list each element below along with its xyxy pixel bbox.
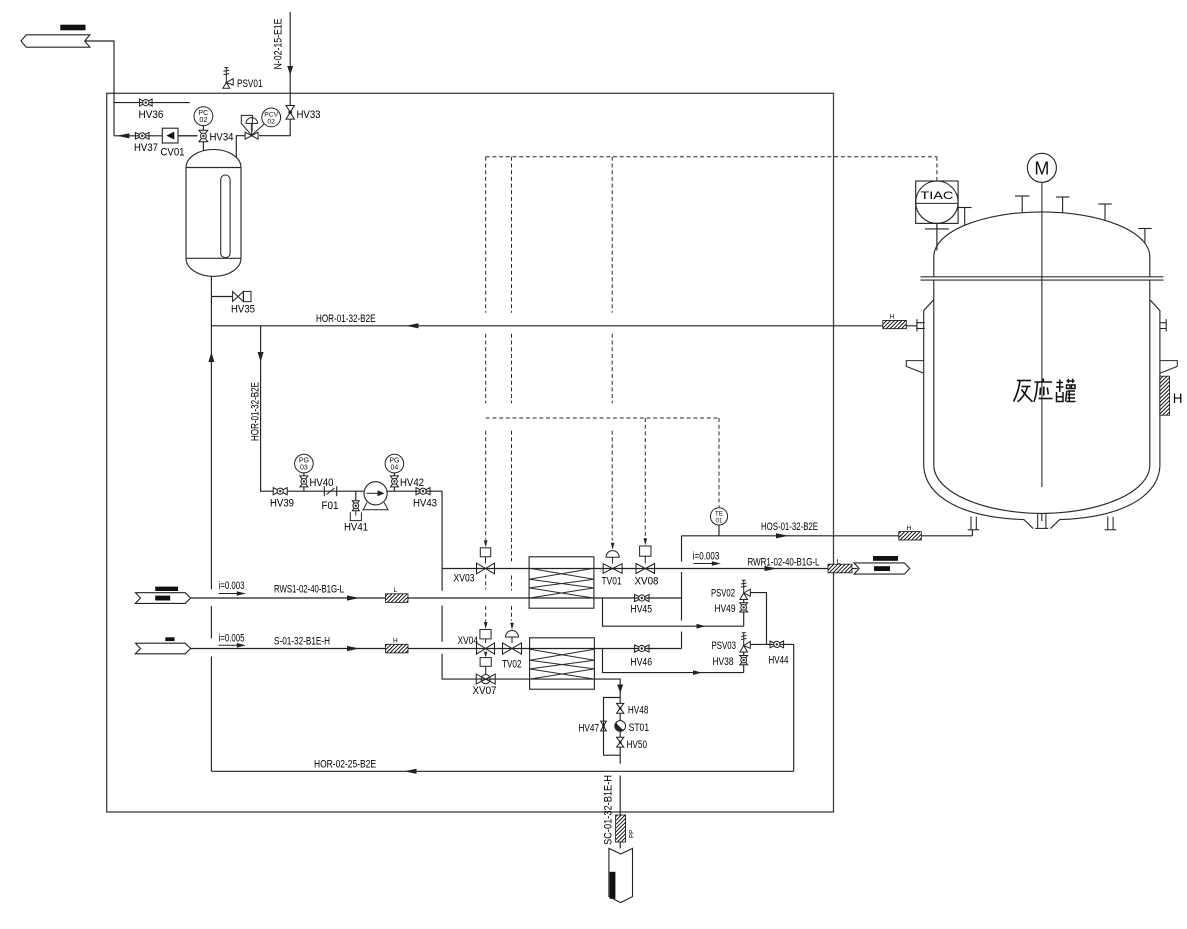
pipe HOR-02-25-B2E <box>211 770 793 772</box>
pipe XV03 oil line through E01 to RWR1 <box>442 568 828 570</box>
svg-text:PG: PG <box>389 458 399 465</box>
label XV03 <box>454 573 475 585</box>
label H on HOR-01 hatch <box>890 313 895 320</box>
svg-text:PCV: PCV <box>264 111 278 118</box>
svg-text:PSV02: PSV02 <box>711 588 735 600</box>
label HV40 <box>310 477 334 489</box>
valve TV02 <box>503 643 522 654</box>
wire vessel drop lower-2 <box>210 657 212 772</box>
label HV42 <box>400 477 424 489</box>
svg-text:HV43: HV43 <box>413 498 437 510</box>
label RWS1-02-40-B1G-L <box>274 584 344 596</box>
svg-text:HV38: HV38 <box>713 656 734 668</box>
signal riser XV03 upper <box>485 157 487 313</box>
label reactor name 1st char <box>1014 381 1033 402</box>
signal riser XV03 lower <box>485 431 487 540</box>
actuator PCV02 pennant <box>241 115 252 135</box>
svg-text:HOR-02-25-B2E: HOR-02-25-B2E <box>314 759 376 771</box>
instrument bubble PCV-02 <box>262 108 281 127</box>
wire HV36 branch <box>114 102 190 104</box>
heat exchanger E01 coil zigzag <box>529 568 594 598</box>
signal riser TV02 c <box>511 431 513 562</box>
control valve PCV02 body <box>245 132 258 139</box>
pipe RWS1-02-40-B1G-L <box>191 597 682 599</box>
label TV01 <box>602 576 622 588</box>
wire vessel bottom drop <box>210 276 212 589</box>
valve HV44 <box>770 641 784 648</box>
wire discharge drop low + bypass corner <box>442 654 476 679</box>
svg-text:HV45: HV45 <box>631 604 653 616</box>
valve TV01 <box>603 564 622 574</box>
arrow flow right into HV38 riser <box>693 670 702 675</box>
svg-text:M: M <box>1034 158 1049 178</box>
wire HV42 stem <box>393 487 395 491</box>
signal riser TV01 a <box>611 157 613 313</box>
svg-text:HV44: HV44 <box>769 655 789 667</box>
svg-text:H: H <box>907 525 912 532</box>
valve HV36 <box>140 99 153 106</box>
signal riser TV01 b <box>611 334 613 404</box>
reactor flange <box>921 277 1164 280</box>
svg-text:TIAC: TIAC <box>920 190 953 202</box>
arrow condensate flow down <box>617 685 623 694</box>
strainer F01 <box>324 486 336 496</box>
svg-text:02: 02 <box>199 115 207 124</box>
instrument bubble TE-01 <box>710 508 727 525</box>
wire E02 drain tee drop <box>603 649 744 673</box>
arrow pump suction flow down <box>258 352 264 362</box>
label H on HOS hatch <box>907 525 912 532</box>
wire HV44 drop to HOR-02 <box>793 644 795 771</box>
valve HV48 <box>617 703 624 713</box>
vessel V01 buffer tank shell <box>186 149 241 276</box>
arrow HOS flow right <box>776 533 789 538</box>
svg-text:HV46: HV46 <box>631 657 653 669</box>
hatch spec-break HOR-01 <box>883 320 907 328</box>
wire HOS collector lower <box>681 632 683 649</box>
check valve CV01 <box>162 128 178 143</box>
label S-01-32-B1E-H <box>274 636 330 648</box>
svg-text:HV40: HV40 <box>310 477 334 489</box>
signal riser XV03 mid <box>485 334 487 404</box>
battery-limit frame box <box>107 93 834 812</box>
svg-text:XV07: XV07 <box>473 685 497 697</box>
label RWR1-02-40-B1G-L <box>748 557 820 569</box>
arrow RWR flow right <box>765 566 778 571</box>
label H on S hatch <box>393 638 398 645</box>
valve HV34 <box>199 130 208 141</box>
jacket right wall <box>1150 300 1160 467</box>
svg-text:HV34: HV34 <box>210 132 234 144</box>
label HV44 <box>769 655 789 667</box>
svg-text:PP: PP <box>629 830 636 838</box>
wire HV42 to PG04 <box>393 473 395 476</box>
actuator TV01 diaphragm <box>606 551 619 564</box>
wire HV38 to PSV03 <box>743 652 745 656</box>
svg-text:HV48: HV48 <box>628 705 649 717</box>
reactor nozzle flange HOR-01 <box>917 319 925 331</box>
valve HV50 <box>617 737 624 747</box>
valve HV43 <box>416 488 430 495</box>
wire pump train <box>287 490 442 492</box>
actuator XV03 <box>480 548 490 564</box>
svg-text:H: H <box>393 638 398 645</box>
actuator XV04 <box>480 630 491 644</box>
signal riser TV02 d <box>511 576 513 591</box>
pipe SC-01-32-B1E-H drop <box>619 776 621 849</box>
signal arrow XV04 <box>484 622 488 629</box>
svg-text:RWS1-02-40-B1G-L: RWS1-02-40-B1G-L <box>274 584 344 596</box>
svg-text:F01: F01 <box>322 500 339 512</box>
label HV33 <box>297 109 321 121</box>
svg-text:i=0.003: i=0.003 <box>219 580 245 592</box>
svg-text:HV36: HV36 <box>139 109 164 121</box>
svg-text:HV35: HV35 <box>231 304 255 316</box>
pipe HOS-01-32-B2E <box>682 535 973 537</box>
valve HV38 <box>740 656 748 665</box>
svg-text:HOR-01-32-B2E: HOR-01-32-B2E <box>316 313 376 325</box>
valve HV46 <box>635 645 649 652</box>
label HOR-01-32-B2E <box>316 313 376 325</box>
relief valve PSV02 <box>740 580 750 599</box>
svg-text:HV33: HV33 <box>297 109 321 121</box>
label XV04 <box>458 635 479 647</box>
actuator PCV02 diaphragm <box>246 118 258 132</box>
jacket outer dish left <box>924 467 1033 529</box>
label PP on SC hatch <box>629 830 636 838</box>
wire HOS collector mid <box>681 572 683 621</box>
reactor leg left <box>968 517 980 530</box>
label reactor name 2nd char <box>1034 379 1053 402</box>
signal arrow TV01 <box>611 543 615 550</box>
off-page connector (vent, points left) <box>21 25 90 48</box>
label PSV02 <box>711 588 735 600</box>
valve HV49 <box>740 603 748 612</box>
reactor leg right <box>1105 517 1117 530</box>
svg-text:HOR-01-32-B2E: HOR-01-32-B2E <box>250 382 262 441</box>
valve XV08 <box>636 564 655 574</box>
signal XV03-XV04 lower <box>485 606 487 622</box>
wire HOS riser to reactor leg <box>971 530 973 536</box>
wire HV34 to PC02 <box>202 126 204 131</box>
svg-text:HV37: HV37 <box>134 142 158 154</box>
arrow RWS flow right <box>347 595 360 600</box>
wire HOS collector upper <box>681 536 683 562</box>
wire pump suction drop HOR-01 <box>261 326 274 491</box>
svg-text:01: 01 <box>715 517 723 524</box>
slope arrow west S <box>219 643 246 648</box>
valve XV03 <box>477 563 495 574</box>
label N-02-15-E1E <box>273 18 285 69</box>
wire PSV02 outlet <box>750 593 766 645</box>
svg-text:HV47: HV47 <box>579 723 600 735</box>
dome nozzle 5 <box>1138 229 1152 244</box>
label SC-01-32-B1E-H vertical <box>603 775 615 845</box>
controller TIAC <box>916 181 958 223</box>
label HV46 <box>631 657 653 669</box>
label ST01 <box>629 722 650 734</box>
label i=0.003 west <box>219 580 245 592</box>
valve HV47 <box>601 721 607 731</box>
wire HV49 to PSV02 <box>743 600 745 603</box>
svg-text:RWR1-02-40-B1G-L: RWR1-02-40-B1G-L <box>748 557 820 569</box>
jacket outer dish right <box>1050 467 1160 529</box>
svg-text:PSV01: PSV01 <box>237 78 263 90</box>
motor M <box>1027 153 1056 182</box>
label i=0.005 west <box>219 633 245 645</box>
arrow flow left into vent drop <box>117 133 129 138</box>
dome nozzle 1 <box>958 208 972 226</box>
svg-text:L: L <box>394 587 398 594</box>
valve HV40 <box>300 476 308 487</box>
valve HV33 <box>286 106 294 120</box>
svg-text:ST01: ST01 <box>629 722 650 734</box>
wire HV35 branch <box>211 296 232 298</box>
pipe PSV03 outlet to HV44 <box>750 643 793 645</box>
hatch spec-break HOS <box>899 532 922 540</box>
reactor neck walls <box>934 257 1150 277</box>
label HV49 <box>715 603 736 615</box>
label PSV01 <box>237 78 263 90</box>
label HV43 <box>413 498 437 510</box>
wire trap bypass loop <box>604 698 621 756</box>
label XV08 <box>635 576 659 588</box>
wire HV49 riser <box>743 612 745 626</box>
svg-text:L: L <box>837 559 841 566</box>
heat exchanger E02 shell <box>530 638 595 689</box>
off-page connector RWR1 outlet <box>854 556 910 574</box>
wire HV50 to loop bottom <box>619 747 621 755</box>
svg-text:H: H <box>890 313 895 320</box>
steam trap ST01 <box>615 721 626 732</box>
signal riser TV02 a <box>511 157 513 313</box>
svg-text:03: 03 <box>300 465 308 472</box>
label CV01 <box>161 147 185 159</box>
wire RWR hatch to connector <box>852 568 858 570</box>
wire E01 drain tee drop <box>603 598 744 626</box>
signal link PCV02 to instrument <box>252 124 265 135</box>
arrow HOR-02 flow left <box>404 769 417 774</box>
wire TIAC thermowell stem <box>925 223 949 250</box>
wire ST01 to HV50 <box>619 731 621 737</box>
relief valve PSV01 <box>223 68 233 89</box>
instrument stem TE01 <box>718 525 720 536</box>
valve HV37 <box>135 132 149 139</box>
relief valve PSV03 <box>740 633 750 652</box>
heat exchanger E01 shell <box>529 557 594 608</box>
hatch spec-break SC vertical <box>616 815 626 842</box>
label HV50 <box>627 739 648 751</box>
off-page connector RWS1 inlet <box>135 587 190 604</box>
instrument bubble PG-03 <box>295 454 314 473</box>
svg-text:HV49: HV49 <box>715 603 736 615</box>
signal riser TE01 <box>718 418 720 507</box>
valve HV45 <box>635 594 649 601</box>
reactor bottom nozzle <box>1035 514 1048 529</box>
label HOS-01-32-B2E <box>761 521 818 533</box>
svg-text:TV02: TV02 <box>502 659 522 671</box>
wire HV41 stem <box>355 491 357 501</box>
reactor bracket west <box>906 361 923 374</box>
slope arrow east RWR <box>694 561 721 566</box>
label HV45 <box>631 604 653 616</box>
actuator TV02 diaphragm <box>506 631 519 644</box>
label HV38 <box>713 656 734 668</box>
hatch spec-break RWS <box>386 594 409 603</box>
label HV41 <box>344 522 368 534</box>
svg-text:PG: PG <box>299 458 309 465</box>
reactor inner dish <box>934 467 1150 514</box>
wire trap branch upper <box>619 698 621 704</box>
wire HV40 to PG03 <box>303 473 305 476</box>
wire vent connector to HV37 drop <box>85 41 114 136</box>
svg-text:XV03: XV03 <box>454 573 475 585</box>
pipe XV07 bypass through E02 to trap <box>476 679 620 697</box>
signal drop XV08 <box>644 418 646 538</box>
wire PCV02 to vessel <box>236 136 245 158</box>
signal riser TV01 c <box>611 431 613 541</box>
label HV48 <box>628 705 649 717</box>
label HOR-02-25-B2E <box>314 759 376 771</box>
pipe N-02-15-E1E nitrogen supply <box>289 12 291 106</box>
arrow S flow right <box>347 646 360 651</box>
instrument bubble PC-02 <box>194 107 213 126</box>
off-page connector SC outlet (points down) <box>609 848 633 902</box>
label L on RWR hatch <box>837 559 841 566</box>
slope arrow west RWS <box>219 591 246 596</box>
svg-text:S-01-32-B1E-H: S-01-32-B1E-H <box>274 636 330 648</box>
reactor bracket east <box>1160 361 1177 374</box>
label TV02 <box>502 659 522 671</box>
signal branch TE01 horizontal <box>486 417 719 419</box>
drain funnel HV41 <box>350 511 361 521</box>
label XV07 <box>473 685 497 697</box>
hatch spec-break RWR <box>828 564 852 573</box>
wire discharge drop mid <box>441 606 443 642</box>
signal riser TV02 e <box>511 606 513 621</box>
arrow flow up into vessel <box>208 352 214 362</box>
wire HV34 west to CV01 <box>178 135 198 137</box>
signal arrow XV07 <box>484 652 487 658</box>
signal trunk to TIAC <box>486 156 937 158</box>
pipe HOR-01-32-B2E jacket return <box>211 325 916 327</box>
svg-text:XV04: XV04 <box>458 635 479 647</box>
svg-text:CV01: CV01 <box>161 147 185 159</box>
svg-text:i=0.003: i=0.003 <box>693 551 720 563</box>
wire vessel drop lower-1 <box>210 606 212 638</box>
svg-text:HV41: HV41 <box>344 522 368 534</box>
valve HV41 <box>352 501 359 511</box>
svg-text:HV50: HV50 <box>627 739 648 751</box>
wire HV33 to PCV02 <box>259 119 290 136</box>
off-page connector S-01 inlet <box>135 637 190 654</box>
svg-text:TE: TE <box>715 510 723 517</box>
signal arrow XV08 <box>644 538 648 545</box>
svg-text:PSV03: PSV03 <box>712 640 737 652</box>
label i=0.003 east <box>693 551 720 563</box>
label HV35 <box>231 304 255 316</box>
valve HV35 with cap <box>233 291 251 301</box>
svg-text:SC-01-32-B1E-H: SC-01-32-B1E-H <box>603 775 615 845</box>
agitator shaft <box>1041 182 1043 487</box>
vessel sight glass <box>221 175 230 258</box>
wire vessel top stub to HV34 <box>202 142 204 151</box>
label F01 <box>322 500 339 512</box>
label HV39 <box>270 498 294 510</box>
svg-text:N-02-15-E1E: N-02-15-E1E <box>273 18 285 69</box>
label HV36 <box>139 109 164 121</box>
reactor shell walls <box>934 280 1150 467</box>
wire SC drop above HOR-02 <box>619 755 621 763</box>
label HV34 <box>210 132 234 144</box>
label HOR-01-32-B2E vertical <box>250 382 262 441</box>
svg-text:02: 02 <box>267 118 275 125</box>
svg-text:H: H <box>1173 391 1183 406</box>
heat exchanger E02 coil zigzag <box>530 649 595 679</box>
label HV37 <box>134 142 158 154</box>
label reactor name 3rd char <box>1056 379 1076 402</box>
dome nozzle 4 <box>1098 204 1112 220</box>
wire HV37 line <box>114 135 198 137</box>
svg-text:04: 04 <box>391 465 399 472</box>
valve XV04 <box>477 643 495 654</box>
signal arrow TV02 <box>510 623 514 630</box>
valve HV42 <box>390 476 398 487</box>
svg-text:XV08: XV08 <box>635 576 659 588</box>
signal riser TV02 b <box>511 334 513 404</box>
instrument bubble PG-04 <box>385 454 404 473</box>
actuator XV08 <box>640 546 651 564</box>
reactor dome <box>934 212 1150 257</box>
arrow flow right into HV49 riser <box>697 624 706 629</box>
wire pump discharge drop <box>441 491 443 591</box>
svg-text:HV39: HV39 <box>270 498 294 510</box>
signal arrow XV03 <box>484 540 488 547</box>
pipe S-01-32-B1E-H <box>191 648 682 650</box>
signal drop into TIAC <box>936 157 938 181</box>
label L on RWS hatch <box>394 587 398 594</box>
valve XV07 <box>476 674 495 684</box>
arrow nitrogen flow down <box>287 66 293 75</box>
wire HV38 riser <box>743 665 745 673</box>
label PSV03 <box>712 640 737 652</box>
label H east pad <box>1173 391 1183 406</box>
svg-text:i=0.005: i=0.005 <box>219 633 245 645</box>
actuator XV07 <box>480 658 491 675</box>
label HV47 <box>579 723 600 735</box>
svg-text:TV01: TV01 <box>602 576 622 588</box>
signal XV03-XV04 upper <box>485 575 487 590</box>
wire HV48 to ST01 <box>619 713 621 720</box>
dome nozzle 3 <box>1056 197 1070 213</box>
svg-text:HOS-01-32-B2E: HOS-01-32-B2E <box>761 521 818 533</box>
dome nozzle 2 <box>1015 196 1030 213</box>
pump P01 <box>363 482 388 510</box>
reactor east pad hatch <box>1160 376 1170 415</box>
hatch spec-break S <box>386 644 409 653</box>
arrow HOR-01 flow left <box>406 323 419 328</box>
valve HV39 <box>273 488 287 495</box>
reactor nozzle east <box>1160 319 1166 331</box>
jacket left wall <box>924 300 934 467</box>
wire HV40 stem <box>303 487 305 491</box>
svg-text:HV42: HV42 <box>400 477 424 489</box>
